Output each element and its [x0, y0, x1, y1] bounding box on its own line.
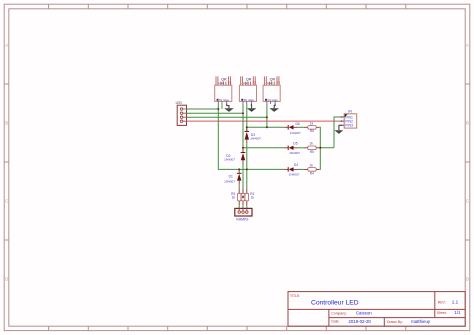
resistor R1	[245, 192, 255, 201]
svg-text:TITLE:: TITLE:	[290, 294, 300, 298]
svg-text:A: A	[466, 43, 469, 48]
junction node D3/D6 branch	[246, 126, 248, 128]
svg-text:R6: R6	[310, 129, 314, 133]
svg-text:1k: 1k	[251, 196, 255, 200]
svg-text:B: B	[5, 121, 8, 126]
svg-text:1.1: 1.1	[452, 300, 459, 305]
wire D5 branch	[243, 147, 284, 149]
svg-text:1N4007: 1N4007	[289, 151, 300, 155]
svg-text:RAMPS: RAMPS	[236, 218, 249, 222]
svg-text:scak: scak	[267, 81, 273, 85]
svg-text:D6: D6	[296, 122, 300, 126]
svg-text:1N4007: 1N4007	[224, 158, 235, 162]
relay module K2	[239, 76, 256, 104]
svg-text:Caisson: Caisson	[356, 311, 372, 316]
svg-text:D1: D1	[229, 175, 233, 179]
wire LED pin1 row	[187, 108, 219, 110]
svg-text:1N4007: 1N4007	[289, 172, 300, 176]
diode D3 (1N4007, vertical)	[245, 127, 262, 144]
TITLE BLOCK	[288, 292, 465, 327]
wire D5 to R5	[298, 147, 304, 149]
diode D4 (1N4007, horizontal)	[284, 163, 300, 176]
junction node row2/K2	[242, 112, 244, 114]
svg-text:5V relay: 5V relay	[267, 98, 278, 102]
junction node D2/D5 branch	[242, 147, 244, 149]
ground under K1	[224, 104, 234, 112]
relay module K3	[263, 76, 280, 104]
svg-text:Sheet:: Sheet:	[437, 311, 447, 315]
wire below D3	[246, 144, 248, 189]
wire resistors to RAMPS	[239, 205, 247, 208]
resistor R5	[308, 142, 316, 154]
connector LED (4-pin header)	[176, 101, 187, 125]
resistor R4	[308, 163, 316, 175]
resistor R2	[241, 193, 245, 201]
ground at IN PIN3	[334, 125, 343, 134]
svg-text:2019-02-20: 2019-02-20	[348, 319, 371, 324]
svg-text:1/1: 1/1	[454, 310, 461, 315]
svg-text:C: C	[5, 199, 8, 204]
svg-text:1k: 1k	[310, 142, 314, 146]
svg-text:D: D	[5, 277, 8, 282]
wire LED pin3 row	[187, 116, 267, 118]
svg-text:Controlleur LED: Controlleur LED	[311, 300, 359, 307]
wire K2 output column to D2	[242, 104, 244, 152]
relay module K1	[215, 76, 232, 104]
ground under K3	[269, 104, 279, 112]
pin stubs resistors R1-R3	[239, 189, 247, 205]
svg-text:LED: LED	[176, 101, 183, 105]
svg-text:D4: D4	[294, 163, 298, 167]
wire K3 output column	[266, 104, 268, 127]
resistor R3	[231, 192, 241, 201]
svg-text:C: C	[466, 199, 469, 204]
connector IN (3-pin)	[341, 109, 357, 128]
junction node K3 col/D6 branch	[266, 126, 268, 128]
svg-text:1N4007: 1N4007	[250, 137, 261, 141]
svg-text:K1: K1	[228, 81, 232, 85]
svg-text:1k: 1k	[310, 122, 314, 126]
svg-text:1k: 1k	[232, 196, 236, 200]
svg-text:B: B	[466, 121, 469, 126]
wire D6 to R6	[298, 126, 304, 128]
svg-text:1N4007: 1N4007	[290, 131, 301, 135]
svg-text:R5: R5	[310, 150, 314, 154]
wire LED pin2 row	[187, 112, 244, 114]
svg-text:D5: D5	[293, 142, 297, 146]
svg-text:scak: scak	[218, 81, 224, 85]
svg-text:PIN3: PIN3	[345, 124, 353, 128]
svg-text:D: D	[466, 277, 469, 282]
wire below D2	[242, 164, 244, 189]
junction node D4 branch	[246, 168, 248, 170]
junction node row3/K3	[266, 116, 268, 118]
svg-text:IN: IN	[348, 109, 352, 113]
junction node row1/K1	[217, 108, 219, 110]
svg-text:5V relay: 5V relay	[244, 98, 255, 102]
diode D6 (1N4007, horizontal)	[284, 122, 301, 135]
svg-text:1k: 1k	[310, 163, 314, 167]
resistor R6	[308, 122, 316, 133]
svg-text:Company:: Company:	[331, 311, 347, 315]
svg-text:Drawn By:: Drawn By:	[387, 320, 403, 324]
svg-text:REV:: REV:	[438, 300, 446, 304]
wire K1 drive column down and across to D1/D4 branch	[218, 104, 284, 169]
junction node D1 top	[238, 168, 240, 170]
connector RAMPS (3-pin)	[235, 208, 252, 221]
diode D1 (1N4007, vertical)	[224, 169, 241, 184]
svg-text:K3: K3	[276, 81, 280, 85]
diode D2 (1N4007, vertical)	[224, 148, 245, 165]
wire D4 to R4	[298, 168, 304, 170]
ground under K2	[247, 104, 257, 112]
svg-text:5V relay: 5V relay	[219, 98, 230, 102]
wire D6 branch	[247, 126, 284, 128]
svg-text:Date:: Date:	[331, 320, 339, 324]
wire K2 drive column to D3	[246, 104, 248, 131]
svg-text:scak: scak	[243, 81, 249, 85]
diode D5 (1N4007, horizontal)	[284, 142, 300, 155]
wire K1 pin2 stub to row1	[221, 101, 223, 109]
wire below D1	[238, 185, 240, 189]
junction node R5/R6 output	[319, 147, 321, 149]
svg-text:K2: K2	[253, 81, 257, 85]
svg-text:A: A	[5, 43, 8, 48]
svg-text:R4: R4	[310, 172, 314, 176]
svg-text:matthieuy: matthieuy	[411, 319, 431, 324]
wire +12V red net LED pin4 to IN PIN2	[187, 120, 342, 122]
wire R6/R5/R4 outputs to IN PIN1	[319, 117, 341, 169]
svg-text:1N4007: 1N4007	[224, 179, 235, 183]
